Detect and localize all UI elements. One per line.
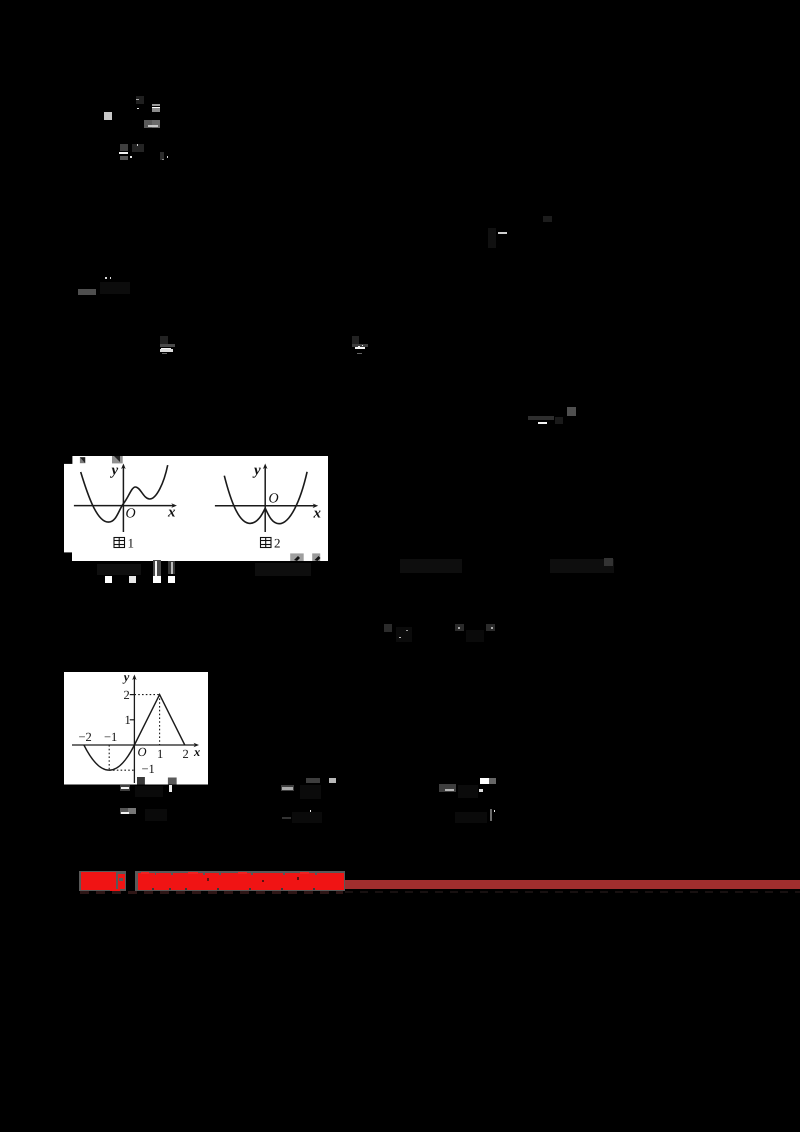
cluster 3: fragment left y~288 [78,289,96,296]
svg-text:1: 1 [124,713,130,727]
svg-text:−2: −2 [78,730,91,744]
dark notches bottom edge (character gaps) [152,888,154,891]
svg-text:y: y [252,462,261,478]
cluster 2: faint minus fragment right [498,232,508,234]
figure panel 3: triangle-wave graph [64,672,208,785]
svg-text:x: x [312,505,321,521]
small gray notches top edge [155,873,157,875]
red label blob (kaodian2) [81,872,116,890]
svg-text:O: O [137,745,146,759]
caption 图2 [260,537,271,547]
svg-text:1: 1 [157,747,163,761]
dark red rule to right edge [345,880,800,889]
corner notches [64,456,72,464]
ticks on y-axis [129,694,134,696]
bottom gray boxes [137,777,145,785]
svg-text:x: x [167,504,176,520]
handle squares [80,457,85,463]
dotted helper lines [109,695,159,771]
cluster 1: faint formula fragments top-left [104,112,112,120]
axes [72,676,197,783]
answer rows fragments y~784-826 [120,785,131,792]
options row 1 fragments y~558-584 [97,564,141,575]
cluster e: fragments row y~144-160 [120,144,129,150]
curve: parabola dip then triangle [83,695,184,771]
svg-text:−1: −1 [141,762,154,776]
svg-text:y: y [121,672,129,684]
faint dashes under rule to page edge [345,891,800,893]
graph 2 axes [215,465,317,532]
row y~624 fragments [384,624,392,632]
fraction fragment 1 at x~160 y~348 [160,336,168,344]
graph 1 axes [74,465,175,532]
svg-text:2: 2 [123,688,129,702]
svg-text:x: x [193,745,200,759]
svg-text:−1: −1 [104,730,117,744]
fraction fragment 2 at x~355 y~348 [352,336,359,344]
red heading band [79,871,127,891]
red title text band [138,873,344,891]
svg-text:2: 2 [274,535,281,550]
svg-text:1: 1 [127,535,134,550]
dark dashes under heading [80,891,343,894]
svg-text:y: y [109,462,118,478]
cluster 6: fragment y~408-424 [567,407,576,416]
labels [78,670,200,776]
figure panel 1: graphs 图1 and 图2 [64,456,329,561]
svg-text:O: O [268,491,278,506]
few interior dark specks [207,878,209,881]
caption 图1 [114,537,125,547]
svg-text:2: 2 [182,747,188,761]
graph 1 curve [80,465,167,522]
graph 2 W curve [224,471,307,523]
svg-text:O: O [125,506,135,521]
